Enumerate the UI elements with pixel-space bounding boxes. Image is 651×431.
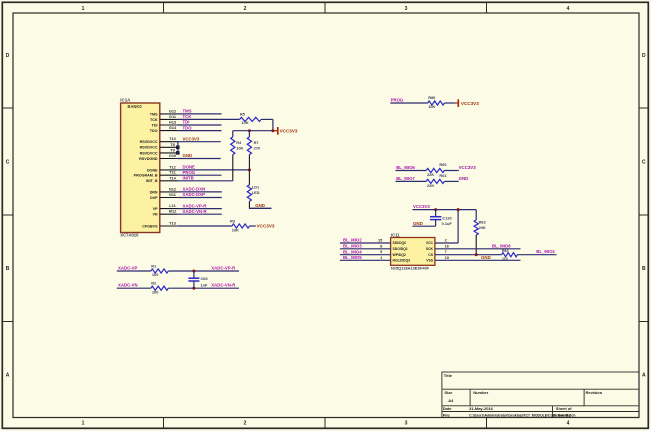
svg-text:B: B [642,266,646,272]
power VCC3V3 bar [275,127,298,135]
svg-text:B: B [6,266,10,272]
wire TCK to R5 [178,118,240,120]
svg-text:CS: CS [428,253,433,257]
svg-text:T14: T14 [169,175,177,180]
svg-text:LD1: LD1 [252,184,260,189]
capacitor C66 1nF [188,271,208,288]
wire RSVDVCC tie (T10-T8-T9) [176,142,180,155]
svg-text:10K: 10K [428,104,435,109]
svg-text:DONE: DONE [183,165,196,170]
svg-text:2: 2 [244,421,247,427]
svg-text:BL_MIO6: BL_MIO6 [396,165,415,170]
svg-text:3: 3 [405,6,408,12]
pin M12 VN / wire net XADC-VN-R [152,209,221,217]
wire XADC-VP-R [168,265,239,271]
svg-text:File: File [443,413,451,418]
svg-text:R60: R60 [439,162,446,167]
svg-text:D: D [6,53,10,59]
pin G12 TMS / wire net TMS [150,108,222,116]
svg-text:Date: Date [443,406,452,411]
svg-text:BL_MIO3: BL_MIO3 [343,243,362,248]
resistor R5 10K (TCK pull-up) [240,111,273,125]
svg-text:BANK0: BANK0 [128,104,143,109]
svg-text:R63: R63 [502,249,508,253]
svg-text:D: D [642,53,646,59]
svg-text:XADC-DXP: XADC-DXP [183,192,206,197]
svg-text:1: 1 [82,6,85,12]
resistor R3 10K (CFGBVS) [230,219,256,233]
svg-text:VCC3V3: VCC3V3 [461,101,479,106]
pin N12 DRN / wire net XADC-DXN [150,186,222,194]
svg-text:Sheet of: Sheet of [556,406,572,411]
resistor R62 20K (CS pull-up) [474,210,486,255]
wire LED to GND [249,201,272,208]
svg-text:SDO/DQ1: SDO/DQ1 [393,247,408,251]
svg-text:270: 270 [254,146,261,151]
svg-text:BL_MIO4: BL_MIO4 [343,249,362,254]
svg-text:BL_MIO2: BL_MIO2 [343,238,362,243]
resistor R61 22K [426,173,459,188]
net label PROG / wire [390,98,427,103]
svg-text:RSVDVCC: RSVDVCC [140,151,158,155]
svg-text:0.1uF: 0.1uF [442,221,453,226]
svg-text:BL_MIO1: BL_MIO1 [536,249,555,254]
svg-text:VP: VP [153,207,158,211]
junction VCC pin riser [457,208,460,211]
wire VCC pin to rail [435,210,458,243]
junction C66 top [192,270,195,273]
pin N11 DXP / wire net XADC-DXP [150,192,222,200]
pin 7 CS [428,249,446,257]
capacitor C120 0.1uF [430,210,452,227]
wire CS to R63 [435,254,502,256]
svg-text:10K: 10K [236,146,243,151]
resistor R2 100 [151,281,168,295]
svg-text:WP/DQ2: WP/DQ2 [393,253,406,257]
wire VSS to GND [435,255,521,260]
svg-text:4: 4 [567,421,570,427]
svg-text:PROG: PROG [391,98,404,103]
svg-text:R61: R61 [439,173,447,178]
svg-text:GND: GND [183,153,193,158]
power VCC3V3 bar (R80) [456,99,479,107]
svg-text:VCC3V3: VCC3V3 [280,128,298,133]
svg-text:VSS: VSS [426,259,434,263]
pin T11 PROGRAM_B / wire net PROG [134,170,222,178]
op-amp none / IC IC1A (XC7A010 BANK0 block) [120,97,160,237]
svg-text:TCK: TCK [183,114,193,119]
svg-text:G10: G10 [169,153,176,158]
svg-text:R62: R62 [479,219,487,224]
wire CFGBVS to R3 [178,225,232,227]
svg-text:CFGBVS: CFGBVS [142,224,158,228]
svg-text:22K: 22K [427,172,434,177]
pin 8 SDO/DQ1 / wire net BL_MIO3 [340,243,408,251]
IC IC11 flash block [391,232,435,270]
LED LD1 [247,170,260,202]
svg-text:A: A [642,372,646,378]
svg-text:G11: G11 [169,114,177,119]
svg-text:RSVDGND: RSVDGND [139,157,158,161]
junction DONE / R7 [248,168,251,171]
svg-text:T10: T10 [169,136,176,141]
svg-text:VCC3V3: VCC3V3 [183,136,200,141]
svg-text:GND: GND [481,255,491,260]
svg-text:N25Q128A13ESF40F: N25Q128A13ESF40F [391,266,430,271]
svg-text:G14: G14 [169,125,177,130]
junction R7 top [248,129,251,132]
svg-text:VCC: VCC [426,241,434,245]
svg-text:DXP: DXP [150,196,158,200]
pin T9 RSVDVCC [140,147,178,155]
junction CS / R62 [475,253,478,256]
svg-text:XADC-DXN: XADC-DXN [183,187,206,192]
svg-text:R80: R80 [428,95,435,100]
junction C120 tap [434,208,437,211]
pin 2 VCC [426,238,448,246]
svg-text:T12: T12 [169,164,177,169]
svg-text:INIT_B: INIT_B [146,179,158,183]
svg-text:Number: Number [473,390,489,395]
resistor R80 10K (PROG pull-up) [428,95,456,109]
svg-text:C66: C66 [201,276,209,281]
svg-text:10: 10 [445,255,449,260]
svg-text:G12: G12 [169,108,177,113]
svg-text:4: 4 [567,6,570,12]
svg-text:TDO: TDO [150,129,158,133]
pin G10 RSVDGND / wire net GND [139,153,221,161]
resistor R4 10K (INIT_B pull-up) [231,131,244,181]
pin T12 DONE / wire net DONE [147,164,249,172]
svg-text:XADC-VP-R: XADC-VP-R [211,265,236,270]
svg-text:PROGRAM_B: PROGRAM_B [134,174,158,178]
pin T13 CFGBVS [142,221,178,229]
pin T8 RSVDVCC [140,142,178,150]
svg-text:BL_MIO6: BL_MIO6 [492,243,511,248]
svg-text:10K: 10K [232,227,239,232]
svg-text:T13: T13 [169,221,177,226]
svg-text:BL_MIO7: BL_MIO7 [396,176,415,181]
svg-text:1: 1 [82,421,85,427]
svg-text:H13: H13 [169,120,177,125]
svg-text:3: 3 [405,421,408,427]
svg-text:Title: Title [444,373,453,378]
svg-text:R7: R7 [254,140,259,145]
svg-text:XADC-VP: XADC-VP [118,265,137,270]
svg-text:R1: R1 [151,263,157,268]
junction C66 bottom [192,287,195,290]
pin G14 TDO / wire net TDO [150,125,222,133]
resistor R63 110 (BL_MIO1 series) [502,249,557,261]
svg-text:XADC-VP-R: XADC-VP-R [183,203,208,208]
svg-text:T11: T11 [169,170,176,175]
svg-text:M12: M12 [169,209,177,214]
svg-text:PROG: PROG [183,170,196,175]
junction VCC rail / R5 [271,129,274,132]
wire SCK net BL_MIO6 [435,243,521,248]
pin T14 INIT_B / wire net INITB [146,175,233,183]
svg-text:SCK: SCK [426,247,434,251]
svg-text:XADC-VN-R: XADC-VN-R [183,209,208,214]
svg-text:20K: 20K [479,225,486,230]
svg-text:TDO: TDO [183,125,193,130]
svg-text:SDI/DQ0: SDI/DQ0 [393,241,407,245]
svg-text:Drawn By:: Drawn By: [554,414,572,418]
net label XADC-VN / wire [117,283,151,289]
svg-text:RSVDVCC: RSVDVCC [140,140,158,144]
svg-text:22K: 22K [427,183,434,188]
svg-text:VCC3V3: VCC3V3 [257,223,275,228]
svg-text:31-May-2016: 31-May-2016 [469,406,494,411]
svg-text:INITB: INITB [183,176,194,181]
svg-text:BL_MIO5: BL_MIO5 [343,255,362,260]
svg-text:LED: LED [252,190,260,195]
svg-text:HOLD/DQ3: HOLD/DQ3 [393,259,411,263]
svg-text:VCC3V3: VCC3V3 [459,165,477,170]
svg-text:A: A [6,372,10,378]
svg-text:XADC-VN: XADC-VN [118,283,138,288]
pin L11 VP / wire net XADC-VP-R [153,203,222,211]
wire VCC rail flash [412,209,476,211]
svg-text:IC11: IC11 [391,232,400,237]
svg-text:TMS: TMS [150,112,158,116]
svg-text:1nF: 1nF [201,282,209,287]
svg-text:IC1A: IC1A [120,97,131,102]
net label BL_MIO7 / wire [396,176,427,182]
pin 1 HOLD/DQ3 / wire net BL_MIO5 [340,255,410,263]
pin T10 RSVDVCC / wire net VCC3V3 [140,136,221,144]
svg-text:R2: R2 [151,281,157,286]
svg-text:N11: N11 [169,192,177,197]
resistor R7 270 (DONE LED series) [247,131,260,170]
svg-text:2: 2 [244,6,247,12]
svg-text:10K: 10K [242,120,249,125]
svg-text:C: C [642,160,646,166]
svg-text:C: C [6,160,10,166]
pin 15 SDI/DQ0 / wire net BL_MIO2 [340,238,406,246]
resistor R1 100 [151,263,168,277]
svg-text:XADC-VN-R: XADC-VN-R [211,283,236,288]
svg-text:VN: VN [152,213,157,217]
pin H13 TDI / wire net TDI [152,120,222,128]
svg-text:XC7A010: XC7A010 [120,233,139,238]
svg-text:VCC3V3: VCC3V3 [413,204,430,209]
svg-text:RSVDVCC: RSVDVCC [140,146,158,150]
pin G11 TCK / wire net TCK [150,114,192,122]
svg-text:C120: C120 [442,215,451,220]
svg-text:R4: R4 [236,140,242,145]
svg-text:R3: R3 [230,219,236,224]
svg-text:DONE: DONE [147,168,158,172]
resistor R60 22K [426,162,459,177]
wire R5 to VCC rail [272,119,274,130]
svg-text:R5: R5 [240,111,246,116]
net label XADC-VP / wire [117,265,151,271]
svg-text:GND: GND [255,203,265,208]
svg-text:A4: A4 [448,398,454,403]
svg-text:TMS: TMS [183,109,192,114]
svg-text:100: 100 [152,289,159,294]
wire VCC3V3 rail [233,130,275,132]
svg-text:GND: GND [413,221,423,226]
svg-text:GND: GND [459,176,469,181]
svg-text:N12: N12 [169,186,177,191]
svg-text:DRN: DRN [150,190,158,194]
svg-text:100: 100 [152,272,159,277]
svg-text:L11: L11 [169,203,176,208]
svg-text:TDI: TDI [152,123,158,127]
svg-text:Size: Size [444,390,453,395]
wire GND (C120) [412,221,435,226]
pin 10 VSS [426,255,449,263]
net label BL_MIO6 / wire [396,165,427,171]
pin 9 WP/DQ2 / wire net BL_MIO4 [340,249,406,257]
svg-text:TDI: TDI [183,120,190,125]
pin 16 SCK [426,243,450,251]
svg-text:Revision: Revision [586,390,603,395]
svg-text:TCK: TCK [150,118,158,122]
svg-text:7: 7 [445,249,447,254]
wire XADC-VN-R [168,283,239,289]
